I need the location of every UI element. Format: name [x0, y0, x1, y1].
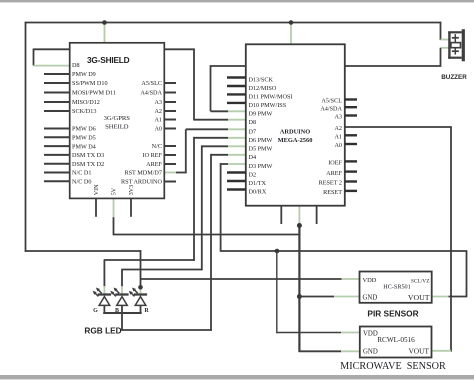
svg-text:A5/SCL: A5/SCL: [321, 98, 342, 105]
svg-text:G: G: [93, 308, 98, 314]
svg-text:RCWL-0516: RCWL-0516: [377, 336, 415, 344]
svg-text:5V: 5V: [112, 187, 118, 195]
svg-text:SCK/D13: SCK/D13: [72, 108, 96, 115]
svg-text:D9 PMW: D9 PMW: [249, 111, 273, 118]
svg-text:A3: A3: [334, 114, 342, 121]
svg-text:D7: D7: [249, 129, 257, 136]
svg-text:D1/TX: D1/TX: [249, 180, 267, 187]
svg-text:D8: D8: [249, 119, 257, 126]
svg-text:SS/PWM D10: SS/PWM D10: [72, 80, 108, 87]
svg-text:VOUT: VOUT: [408, 347, 429, 356]
svg-text:IOEF: IOEF: [328, 160, 342, 167]
svg-text:PMW D5: PMW D5: [72, 135, 96, 142]
svg-text:3V3: 3V3: [129, 185, 135, 195]
svg-text:3G-SHIELD: 3G-SHIELD: [87, 55, 130, 65]
svg-text:PIR SENSOR: PIR SENSOR: [367, 309, 418, 319]
svg-text:D0/RX: D0/RX: [249, 189, 267, 196]
svg-text:D3 PMW: D3 PMW: [249, 163, 273, 170]
svg-text:A0: A0: [154, 126, 162, 133]
svg-text:VOUT: VOUT: [408, 293, 430, 302]
svg-text:RST MDM/D7: RST MDM/D7: [124, 170, 162, 177]
svg-text:D11 PMW/MOSI: D11 PMW/MOSI: [249, 94, 293, 101]
svg-text:MEGA-2560: MEGA-2560: [278, 137, 313, 144]
svg-text:A4/SDA: A4/SDA: [320, 105, 342, 112]
svg-text:PMW D9: PMW D9: [72, 71, 96, 78]
svg-text:A1: A1: [334, 134, 342, 141]
svg-text:PMW D4: PMW D4: [72, 143, 96, 150]
svg-text:RST ARDUINO: RST ARDUINO: [121, 179, 163, 186]
svg-text:N/C D1: N/C D1: [72, 170, 91, 177]
svg-text:VDD: VDD: [363, 330, 378, 337]
svg-text:BUZZER: BUZZER: [441, 74, 467, 81]
svg-text:SHEILD: SHEILD: [105, 124, 129, 131]
svg-text:AREF: AREF: [326, 170, 342, 177]
svg-text:D2: D2: [249, 172, 257, 179]
svg-text:IO REF: IO REF: [143, 152, 163, 159]
svg-text:D6 PMW: D6 PMW: [249, 137, 273, 144]
svg-text:PMW D6: PMW D6: [72, 126, 96, 133]
svg-text:RESET 2: RESET 2: [319, 180, 342, 187]
svg-text:RGB LED: RGB LED: [84, 326, 121, 336]
svg-text:AREF: AREF: [146, 161, 162, 168]
svg-text:A2: A2: [154, 108, 162, 115]
svg-text:N/C: N/C: [152, 143, 162, 150]
svg-text:D8: D8: [72, 62, 80, 69]
svg-text:D10 PMW/ISS: D10 PMW/ISS: [249, 102, 287, 109]
svg-text:R: R: [144, 308, 149, 314]
svg-text:A0: A0: [334, 142, 342, 149]
svg-text:A4/SDA: A4/SDA: [140, 90, 162, 97]
svg-text:GND: GND: [363, 348, 378, 355]
svg-text:A1: A1: [154, 117, 162, 124]
svg-text:ARDUINO: ARDUINO: [280, 129, 311, 136]
svg-text:VDD: VDD: [363, 277, 377, 284]
svg-text:VIN: VIN: [94, 184, 100, 195]
svg-text:D13/SCK: D13/SCK: [249, 77, 274, 84]
svg-text:MISO/D12: MISO/D12: [72, 99, 100, 106]
svg-text:D12/MISO: D12/MISO: [249, 85, 277, 92]
svg-text:DSM TX D3: DSM TX D3: [72, 152, 104, 159]
svg-text:3G/GPRS: 3G/GPRS: [104, 115, 131, 122]
svg-text:SCL/VZ: SCL/VZ: [411, 279, 430, 285]
svg-text:MICROWAVE SENSOR: MICROWAVE SENSOR: [340, 361, 446, 372]
svg-text:A2: A2: [334, 125, 342, 132]
svg-text:A3: A3: [154, 99, 162, 106]
svg-text:GND: GND: [363, 294, 378, 301]
svg-text:DSM TX D2: DSM TX D2: [72, 161, 104, 168]
svg-text:RESET: RESET: [323, 189, 342, 196]
svg-text:MOSI/PWM D11: MOSI/PWM D11: [72, 90, 116, 97]
svg-text:D5 PMW: D5 PMW: [249, 146, 273, 153]
svg-text:HC-SR501: HC-SR501: [383, 284, 411, 291]
svg-text:A5/SLC: A5/SLC: [141, 80, 162, 87]
svg-text:N/C D0: N/C D0: [72, 179, 91, 186]
svg-text:D4: D4: [249, 154, 257, 161]
